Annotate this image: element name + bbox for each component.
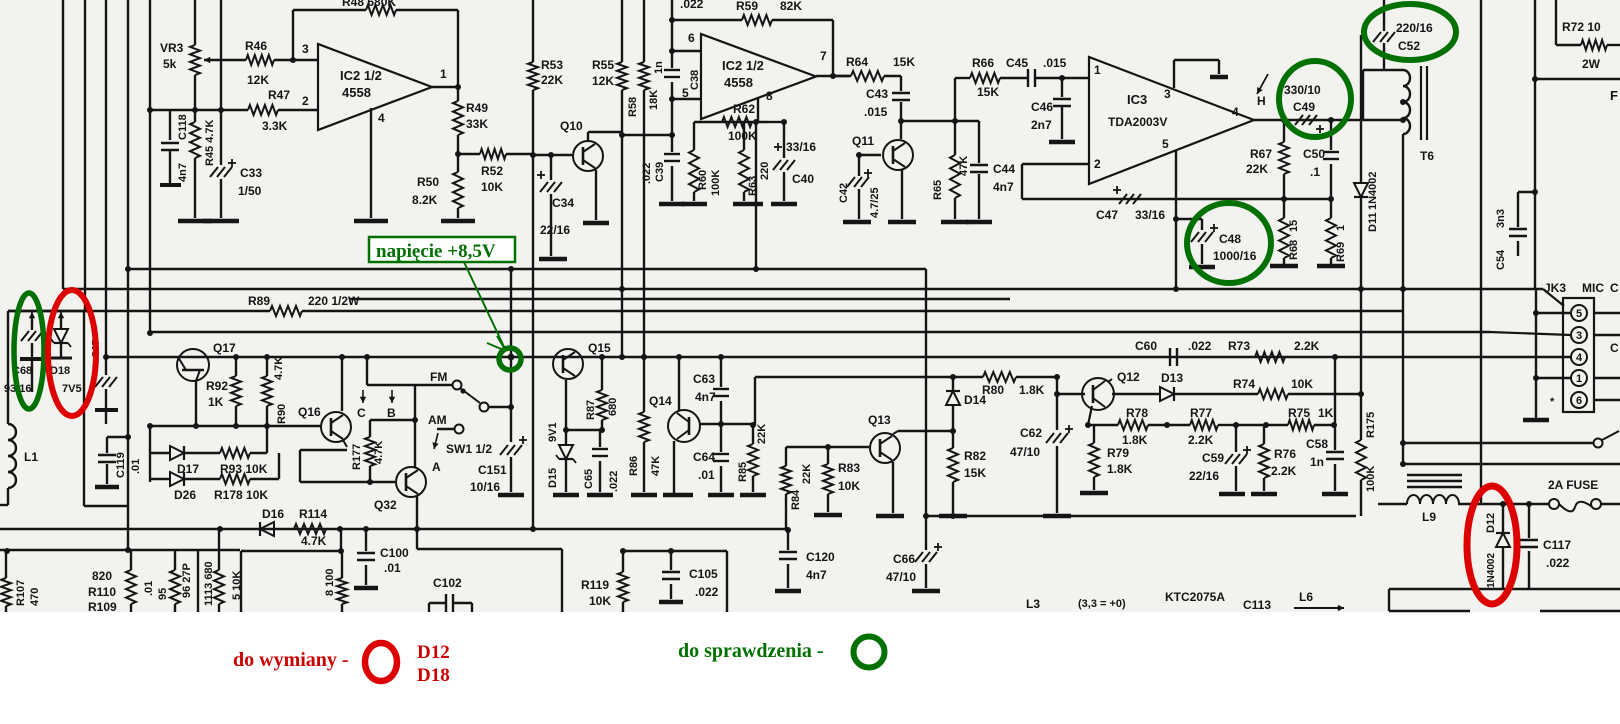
diode D15 (zener 9V1) [547, 422, 576, 492]
svg-text:4: 4 [1232, 105, 1239, 119]
node [785, 527, 791, 533]
svg-text:R46: R46 [245, 39, 267, 53]
capacitor C59 [1189, 425, 1251, 491]
wire [457, 10, 459, 87]
wire pin5 [1533, 310, 1620, 316]
svg-text:R178 10K: R178 10K [214, 488, 268, 502]
wire [925, 269, 927, 516]
node [1400, 461, 1406, 467]
resistor R55 [592, 0, 627, 132]
pin 4 [378, 111, 385, 125]
annotation red ellipse D18 [48, 290, 96, 416]
svg-text:C46: C46 [1031, 100, 1053, 114]
svg-text:1.8K: 1.8K [1107, 462, 1133, 476]
svg-text:C48: C48 [1219, 232, 1241, 246]
svg-text:D13: D13 [1161, 371, 1183, 385]
pin 7 [820, 49, 827, 63]
svg-text:C59: C59 [1202, 451, 1224, 465]
node [950, 428, 956, 434]
resistor R177 [351, 420, 385, 482]
svg-text:R92: R92 [206, 379, 228, 393]
node [233, 354, 270, 360]
svg-text:22/16: 22/16 [1189, 469, 1219, 483]
annotation green circle legend [854, 637, 885, 668]
svg-text:1: 1 [440, 67, 447, 81]
wire emitter Q15 [565, 380, 567, 430]
svg-text:.022: .022 [695, 585, 719, 599]
wire [1334, 357, 1336, 425]
capacitor C33 [210, 110, 262, 218]
svg-text:IC3: IC3 [1127, 92, 1147, 107]
node [125, 266, 131, 272]
svg-text:B: B [387, 406, 396, 420]
svg-text:AM: AM [428, 413, 447, 427]
transistor Q16 [298, 405, 351, 442]
svg-text:H: H [1257, 94, 1266, 108]
svg-text:100K: 100K [728, 129, 757, 143]
wire bus D [8, 310, 1404, 312]
pin 1 [1094, 63, 1101, 77]
node [508, 266, 1406, 360]
text L6 [1299, 590, 1313, 604]
ground [939, 514, 967, 519]
svg-text:D11: D11 [1367, 212, 1379, 232]
svg-text:.022: .022 [1188, 339, 1212, 353]
svg-text:A: A [432, 460, 441, 474]
diode D16 [260, 507, 284, 536]
node [147, 330, 153, 336]
wire out [816, 75, 849, 77]
svg-text:1/50: 1/50 [238, 184, 262, 198]
capacitor C58 [1306, 425, 1344, 491]
annotation green circle node [499, 348, 521, 370]
wire bus +8.5V [128, 268, 926, 270]
node [530, 152, 536, 158]
node [1281, 117, 1287, 123]
svg-text:15K: 15K [964, 466, 986, 480]
resistor R77 [1167, 406, 1232, 447]
annotation arrow [464, 262, 506, 351]
node [455, 151, 461, 157]
wire bus G [0, 528, 788, 530]
wire [149, 426, 151, 482]
node [923, 513, 956, 519]
resistor R58 [627, 0, 660, 357]
wire [1532, 0, 1620, 289]
svg-text:.01: .01 [384, 561, 401, 575]
node [622, 132, 675, 138]
svg-text:Q12: Q12 [1117, 370, 1140, 384]
wire base Q12 [1057, 393, 1085, 395]
svg-text:C64: C64 [693, 450, 715, 464]
resistor R69 [1326, 199, 1347, 264]
resistor R92 [206, 357, 241, 426]
capacitor C118 [160, 114, 189, 185]
resistor R60 [689, 150, 722, 201]
node D18 top [58, 312, 64, 328]
svg-text:C: C [1610, 341, 1619, 355]
text B [387, 390, 396, 420]
annotation green ellipse C52 [1364, 4, 1456, 60]
svg-text:95: 95 [157, 588, 169, 600]
svg-text:.022: .022 [641, 163, 653, 184]
ground [553, 493, 579, 498]
node [1328, 117, 1334, 202]
node [1263, 422, 1269, 428]
svg-text:.01: .01 [143, 581, 155, 596]
svg-text:C117: C117 [1543, 538, 1571, 552]
svg-text:6: 6 [688, 31, 695, 45]
ground [966, 220, 992, 225]
svg-text:100K: 100K [710, 170, 722, 196]
svg-text:C58: C58 [1306, 437, 1328, 451]
ground [876, 514, 904, 519]
svg-text:6: 6 [1576, 395, 1582, 407]
svg-text:1K: 1K [1318, 406, 1334, 420]
svg-text:D26: D26 [174, 488, 196, 502]
svg-text:C54: C54 [1495, 249, 1507, 270]
ground [1322, 492, 1348, 497]
resistor R82 [948, 431, 986, 513]
svg-text:D15: D15 [547, 468, 559, 488]
resistor (5 10K) [214, 529, 243, 612]
wire emitter Q11 [901, 170, 903, 219]
wire [1402, 134, 1404, 289]
wire [432, 86, 458, 88]
wire [1480, 0, 1482, 504]
node [4, 547, 131, 554]
resistor R85 [737, 424, 768, 492]
wire R62 node [694, 122, 769, 150]
svg-text:Q16: Q16 [298, 405, 321, 419]
svg-text:R58: R58 [627, 97, 639, 117]
pin 4 [1232, 105, 1239, 119]
svg-text:D17: D17 [177, 462, 199, 476]
capacitor C38 [653, 20, 701, 99]
svg-text:22K: 22K [801, 464, 813, 484]
node [217, 526, 369, 532]
switch SW1 FM [367, 370, 511, 412]
svg-text:.01: .01 [698, 468, 715, 482]
ground [1080, 491, 1108, 496]
wire switch [1403, 431, 1619, 448]
wire collector Q14 [678, 357, 680, 411]
node [1233, 422, 1239, 428]
capacitor C48 [1176, 219, 1257, 264]
svg-text:15: 15 [1288, 220, 1300, 232]
capacitor C151 [470, 357, 527, 494]
node C68 top [29, 312, 35, 330]
svg-text:L1: L1 [24, 450, 38, 464]
svg-text:R75: R75 [1288, 406, 1310, 420]
wire [832, 20, 834, 76]
svg-text:3: 3 [302, 42, 309, 56]
wire [241, 530, 344, 612]
wire [1403, 463, 1620, 465]
transistor Q17 [177, 341, 236, 381]
svg-text:R110: R110 [88, 585, 116, 599]
ground [733, 202, 763, 207]
svg-text:330/10: 330/10 [1284, 83, 1321, 97]
resistor R178 [184, 474, 279, 502]
node [1164, 422, 1170, 428]
resistor R119 [581, 551, 628, 612]
svg-text:C: C [357, 406, 366, 420]
svg-text:3n3: 3n3 [1495, 209, 1507, 228]
node [619, 132, 625, 138]
node [0, 0, 1, 1]
svg-text:L9: L9 [1422, 510, 1436, 524]
capacitor C45 [1006, 56, 1089, 87]
resistor R80 [953, 372, 1057, 397]
svg-text:R175: R175 [1365, 412, 1377, 438]
svg-text:4.7K: 4.7K [273, 357, 285, 380]
wire bus H [0, 549, 240, 551]
svg-text:*: * [1550, 396, 1555, 408]
svg-text:4: 4 [1576, 352, 1583, 364]
svg-text:C42: C42 [838, 183, 850, 203]
wire [1284, 198, 1331, 200]
svg-text:C39: C39 [654, 162, 666, 182]
svg-text:R83: R83 [838, 461, 860, 475]
ground [539, 257, 567, 262]
svg-text:R72 10: R72 10 [1562, 20, 1601, 34]
wire bus E [150, 332, 1571, 335]
svg-text:R49: R49 [466, 101, 488, 115]
svg-text:VR3: VR3 [160, 41, 184, 55]
wire pin6 right [1594, 399, 1620, 401]
node [147, 107, 153, 113]
svg-text:4n7: 4n7 [695, 390, 716, 404]
svg-text:R77: R77 [1190, 406, 1212, 420]
ground [1219, 492, 1245, 497]
svg-text:C49: C49 [1293, 100, 1315, 114]
svg-text:2n7: 2n7 [1031, 118, 1052, 132]
svg-text:1: 1 [1335, 225, 1347, 231]
svg-text:5: 5 [1576, 308, 1582, 320]
wire bus B [63, 288, 1543, 290]
resistor R76 [1259, 425, 1297, 491]
node [218, 107, 224, 113]
svg-text:D18: D18 [417, 665, 450, 686]
node [290, 57, 296, 63]
svg-text:D12: D12 [417, 642, 450, 663]
wire pin1 [1533, 375, 1620, 381]
svg-text:R59: R59 [736, 0, 758, 13]
node [1281, 196, 1287, 202]
svg-text:Q10: Q10 [560, 119, 583, 133]
svg-text:33/16: 33/16 [1135, 208, 1165, 222]
wire emitter Q10 [595, 170, 597, 220]
svg-text:R90: R90 [276, 404, 288, 424]
svg-text:C100: C100 [380, 546, 409, 560]
ground [1317, 264, 1345, 269]
svg-text:C113: C113 [1243, 598, 1271, 612]
wire bus F [106, 356, 1571, 358]
svg-text:T6: T6 [1420, 149, 1434, 163]
resistor R87 [585, 357, 619, 430]
ground [498, 493, 524, 498]
wire [63, 0, 150, 357]
svg-text:R79: R79 [1107, 446, 1129, 460]
ground [354, 586, 378, 591]
ground [659, 202, 685, 207]
ground [681, 202, 707, 207]
wire [757, 98, 759, 122]
svg-text:12K: 12K [592, 74, 614, 88]
wire [8, 310, 88, 312]
annotation red circle [365, 643, 397, 681]
diode D11 1N4002 [1354, 35, 1379, 289]
ground [1210, 75, 1228, 80]
svg-text:C63: C63 [693, 372, 715, 386]
svg-text:R85: R85 [737, 462, 749, 482]
svg-text:IC2 1/2: IC2 1/2 [722, 58, 764, 73]
node [125, 434, 131, 440]
annotation do wymiany [233, 649, 349, 671]
svg-text:napięcie +8,5V: napięcie +8,5V [376, 241, 496, 262]
text L3 [1026, 597, 1040, 611]
wire [1402, 289, 1404, 464]
svg-text:1N4002: 1N4002 [1486, 553, 1497, 588]
svg-text:1000/16: 1000/16 [1213, 249, 1257, 263]
svg-text:4.7/25: 4.7/25 [869, 187, 881, 218]
svg-text:96 27P: 96 27P [181, 563, 193, 598]
node [641, 354, 724, 360]
svg-text:R76: R76 [1274, 447, 1296, 461]
svg-text:10K: 10K [838, 479, 860, 493]
svg-text:(3,3 = +0): (3,3 = +0) [1078, 598, 1126, 610]
wire pin3 right [1594, 334, 1620, 336]
op-amp IC3 TDA2003V [1089, 57, 1254, 184]
wire [292, 10, 294, 60]
svg-text:2: 2 [1094, 157, 1101, 171]
resistor R62 [722, 102, 757, 143]
svg-text:22K: 22K [1246, 162, 1268, 176]
svg-text:D18: D18 [50, 365, 70, 377]
wire [1389, 610, 1620, 612]
wire emitter Q12 [1088, 406, 1092, 425]
svg-text:C62: C62 [1020, 426, 1042, 440]
capacitor C42 [838, 155, 881, 219]
ground [178, 219, 212, 224]
resistor R59 [672, 0, 833, 25]
svg-text:R53: R53 [541, 58, 563, 72]
resistor R78 [1118, 406, 1167, 447]
resistor R114 [294, 507, 327, 548]
node [192, 107, 198, 113]
svg-text:TDA2003V: TDA2003V [1108, 115, 1167, 129]
node [668, 548, 674, 554]
node [0, 0, 1, 1]
transistor Q10 [560, 119, 603, 171]
capacitor C65 [583, 430, 620, 492]
svg-text:C52: C52 [1398, 39, 1420, 53]
text C cut [1610, 281, 1619, 355]
capacitor (.022 top) [672, 0, 704, 20]
op-amp IC2 1/2 (b) [701, 34, 816, 119]
connector JK3 MIC [1544, 281, 1604, 412]
svg-text:1K: 1K [208, 395, 224, 409]
svg-text:10K: 10K [1291, 377, 1313, 391]
JK3 pin 4 [1571, 349, 1587, 365]
capacitor C117 [1520, 504, 1571, 589]
svg-text:Q11: Q11 [852, 134, 874, 148]
transformer T6 [1403, 66, 1434, 163]
node [548, 152, 554, 158]
svg-text:3: 3 [1576, 330, 1582, 342]
transistor Q14 [649, 394, 700, 442]
wire bus C [350, 298, 1010, 300]
svg-text:47/10: 47/10 [886, 570, 916, 584]
transistor Q32 [374, 467, 426, 512]
svg-text:1113 680: 1113 680 [203, 561, 215, 606]
wire [510, 269, 512, 357]
node [830, 73, 836, 79]
resistor R50 [412, 154, 463, 218]
svg-text:MIC: MIC [1582, 281, 1604, 295]
wire [621, 135, 623, 357]
annotation D12 D18 [417, 642, 450, 686]
node [952, 118, 958, 124]
capacitor C64 [693, 450, 729, 492]
resistor R46 [204, 39, 318, 87]
resistor (8 100) [324, 551, 347, 612]
svg-text:Q14: Q14 [649, 394, 672, 408]
svg-text:R50: R50 [417, 175, 439, 189]
wire [84, 311, 128, 506]
ground [912, 589, 940, 594]
pin 3 [1164, 87, 1171, 101]
node [1358, 391, 1364, 397]
svg-text:8: 8 [766, 89, 773, 103]
resistor R110 [88, 550, 136, 614]
svg-text:4n7: 4n7 [177, 163, 189, 182]
svg-text:R177: R177 [351, 444, 363, 470]
svg-text:220 1/2W: 220 1/2W [308, 294, 360, 308]
svg-text:47K: 47K [650, 456, 662, 476]
svg-text:1n: 1n [653, 61, 665, 74]
capacitor C49 [1284, 83, 1324, 133]
svg-text:R80: R80 [982, 383, 1004, 397]
svg-text:R65: R65 [932, 180, 944, 200]
wire [195, 0, 221, 110]
svg-text:R55: R55 [592, 58, 614, 72]
svg-text:4558: 4558 [342, 85, 371, 100]
svg-text:Q32: Q32 [374, 498, 397, 512]
annotation napiecie box [369, 237, 515, 262]
ground [814, 513, 842, 518]
diode D17 [150, 446, 199, 476]
resistor R53 [528, 0, 563, 155]
ground [441, 219, 475, 224]
svg-text:82K: 82K [780, 0, 802, 13]
wire pin3 stub [1174, 60, 1219, 88]
capacitor C50 [1303, 120, 1339, 199]
svg-text:.01: .01 [130, 459, 142, 474]
ground [740, 493, 766, 498]
capacitor C44 [970, 121, 1015, 219]
capacitor C105 [662, 551, 719, 599]
resistor R74 [1174, 377, 1361, 399]
svg-text:1N4002: 1N4002 [1367, 171, 1379, 210]
node [455, 84, 461, 90]
wire bus [926, 515, 1356, 517]
capacitor C63 [693, 357, 729, 452]
svg-text:2W: 2W [1582, 57, 1601, 71]
resistor R93 [184, 448, 268, 476]
svg-text:C40: C40 [792, 172, 814, 186]
